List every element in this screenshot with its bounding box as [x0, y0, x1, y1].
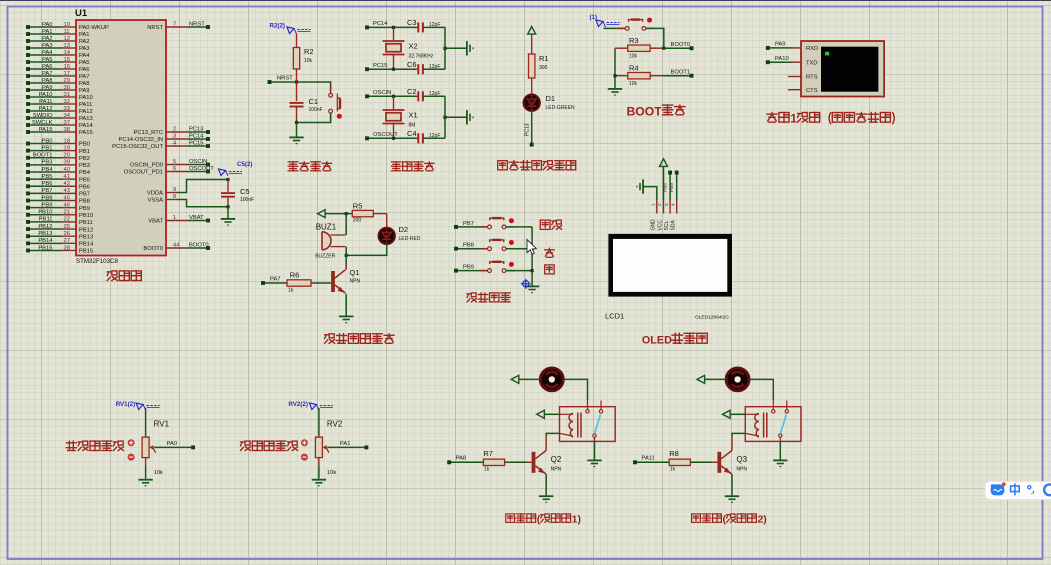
svg-text:VBAT: VBAT [148, 219, 163, 225]
svg-text:12pF: 12pF [429, 64, 440, 70]
svg-text:PB9: PB9 [463, 265, 474, 271]
collector wire of Q2 [545, 436, 547, 451]
svg-text:PA7: PA7 [79, 74, 90, 80]
svg-text:PB2: PB2 [79, 156, 90, 162]
svg-text:PB3: PB3 [79, 163, 90, 169]
svg-text:PB15: PB15 [79, 249, 93, 255]
terminal C5(2) [219, 169, 226, 176]
label 减 [545, 265, 555, 274]
svg-text:11: 11 [64, 29, 70, 35]
svg-text:3: 3 [664, 203, 670, 206]
svg-text:R3: R3 [629, 36, 639, 45]
svg-text:PC15: PC15 [373, 63, 388, 69]
pin 6 OSCOUT_PD1 / net OSCOUT [166, 171, 188, 173]
svg-text:PA10: PA10 [39, 92, 53, 98]
capacitor C4 12pF [417, 133, 419, 143]
svg-text:PA0: PA0 [167, 441, 178, 447]
svg-text:BOOT: BOOT [627, 104, 663, 118]
net PA10 wire [768, 61, 792, 63]
svg-text:17: 17 [64, 71, 70, 77]
svg-text:PA12: PA12 [79, 109, 93, 115]
svg-text:40: 40 [64, 167, 70, 173]
node C5 top junction [226, 178, 229, 181]
svg-text:PA7: PA7 [270, 277, 281, 283]
net PA9 wire [768, 47, 792, 49]
pin 11 wire/net PA1 [28, 33, 62, 35]
pin 28 wire/net PB15 [28, 249, 62, 251]
reset push button [330, 86, 332, 93]
pin 20 wire/net BOOT1 [28, 157, 62, 159]
svg-text:PA0-WKUP: PA0-WKUP [79, 25, 109, 31]
node collector junction [345, 254, 348, 257]
svg-text:PB8: PB8 [79, 199, 90, 205]
svg-text:300: 300 [353, 218, 362, 224]
transistor Q3 NPN [717, 452, 721, 473]
resistor R4 10k [615, 75, 628, 77]
svg-text:32.768KHz: 32.768KHz [409, 54, 434, 60]
relay NC pin of 继电器(雾化器2) [785, 410, 788, 413]
wire NRST to button [297, 82, 331, 91]
wire terminal to BOOT button [604, 27, 626, 29]
svg-text:10k: 10k [629, 54, 638, 60]
node C1 bottom junction [295, 121, 298, 124]
svg-text:PB6: PB6 [79, 184, 90, 190]
svg-text:PB14: PB14 [79, 242, 94, 248]
svg-text:R2(2): R2(2) [270, 23, 285, 30]
svg-text:PB12: PB12 [79, 227, 93, 233]
net PC13 wire below D1 [531, 110, 533, 144]
svg-text:OSCIN_PD0: OSCIN_PD0 [130, 163, 163, 169]
svg-text:44: 44 [173, 242, 180, 248]
IME punctuation icon [1028, 486, 1031, 489]
svg-text:33: 33 [64, 106, 70, 112]
svg-text:C6: C6 [407, 60, 417, 69]
wire buzzer to R5 node [345, 214, 347, 235]
power terminal at relay coil of 继电器(雾化器2) [723, 410, 731, 418]
svg-text:PB1: PB1 [42, 145, 53, 151]
relay coil of 继电器(雾化器1) [569, 414, 573, 438]
push button PB8 [480, 248, 487, 250]
svg-text:C4: C4 [407, 129, 417, 138]
svg-text:OLED12864I2C: OLED12864I2C [695, 315, 729, 321]
svg-text:VDDA: VDDA [147, 191, 163, 197]
wire terminal to RV2 [318, 408, 320, 436]
svg-text:PB11: PB11 [79, 220, 93, 226]
svg-text:9: 9 [173, 187, 176, 193]
label 加 [545, 249, 555, 251]
svg-text:PA13: PA13 [79, 116, 93, 122]
svg-text:14: 14 [64, 50, 71, 56]
svg-text:C5: C5 [240, 187, 250, 196]
pin 29 wire/net PA8 [28, 82, 62, 84]
terminal (1) [596, 20, 603, 27]
wire motor to relay of 继电器(雾化器2) [749, 379, 773, 400]
relay coil bottom pin of 继电器(雾化器2) [745, 433, 759, 436]
svg-text:C2: C2 [407, 87, 417, 96]
net PA7 wire [263, 282, 287, 284]
red actuation dot of reset button [337, 114, 342, 119]
svg-text:STM32F103C8: STM32F103C8 [76, 258, 119, 265]
relay coil of 继电器(雾化器2) [755, 414, 759, 438]
RV1 adjust buttons [128, 439, 135, 446]
svg-text:PA8: PA8 [456, 456, 467, 462]
net PB6 wire at SCL [669, 173, 671, 201]
svg-text:18: 18 [64, 138, 70, 144]
label （模拟手机端） [829, 112, 831, 124]
svg-text:30: 30 [64, 85, 70, 91]
LED D1 LED-GREEN [524, 95, 540, 111]
net PB9 wire at SDA [676, 173, 678, 201]
resistor R2 10k [296, 34, 298, 48]
svg-text:VBAT: VBAT [189, 215, 204, 221]
pin 1 VBAT [166, 220, 188, 222]
wire motor to relay of 继电器(雾化器1) [563, 379, 587, 400]
ground of X2 section [445, 47, 466, 49]
wire R8 to Q3 base [690, 461, 712, 463]
svg-text:(: ( [723, 514, 727, 526]
svg-text:PC15-OSC32_OUT: PC15-OSC32_OUT [112, 144, 163, 150]
svg-text:BOOT0: BOOT0 [189, 242, 209, 248]
terminal R2(2) [287, 27, 294, 34]
svg-text:TXD: TXD [806, 60, 818, 66]
power terminal at relay coil of 继电器(雾化器1) [537, 410, 545, 418]
svg-text:PC14: PC14 [373, 21, 388, 27]
svg-text:U1: U1 [75, 8, 88, 19]
pin 46 wire/net PB9 [28, 207, 62, 209]
OLED module LCD1 body [608, 234, 732, 297]
svg-text:PA6: PA6 [79, 67, 90, 73]
svg-text:RTS: RTS [806, 75, 818, 81]
svg-text:2): 2) [757, 514, 766, 526]
ground under Q3 [731, 474, 733, 495]
ground below C5 [227, 207, 229, 218]
power terminal above R1 [528, 27, 536, 35]
relay coil bottom pin of 继电器(雾化器1) [560, 433, 574, 436]
svg-text:10k: 10k [154, 470, 163, 476]
svg-text:(: ( [537, 514, 541, 526]
svg-text:39: 39 [64, 160, 70, 166]
svg-text:PB15: PB15 [38, 245, 52, 251]
svg-text:C3: C3 [407, 18, 417, 27]
IME partial icon at edge [1044, 484, 1051, 495]
buzzer BUZ1 [322, 232, 331, 250]
LED D2 LED-RED [386, 214, 388, 228]
svg-text:PA1: PA1 [340, 441, 351, 447]
svg-text:PA11: PA11 [79, 102, 92, 108]
U1 chip body STM32F103C8 [76, 20, 166, 256]
wire R6 to Q1 base [311, 282, 331, 284]
node key bus PB8 junction [531, 247, 534, 250]
transistor Q2 NPN [532, 452, 536, 473]
net PB8 wire [456, 248, 488, 250]
node key bus PB9 junction [531, 269, 534, 272]
svg-text:41: 41 [64, 174, 70, 180]
svg-text:NPN: NPN [350, 279, 361, 285]
svg-text:15: 15 [64, 57, 70, 63]
svg-text:PC15: PC15 [189, 140, 204, 146]
svg-text:BUZ1: BUZ1 [316, 223, 337, 232]
push button PB7 [480, 226, 487, 228]
ground of keys [525, 286, 539, 293]
ground under Q1 [345, 294, 347, 316]
pin 16 wire/net PA6 [28, 68, 62, 70]
svg-text:1: 1 [651, 203, 657, 206]
svg-text:LED-GREEN: LED-GREEN [546, 105, 576, 111]
svg-text:PB11: PB11 [39, 217, 53, 223]
svg-text:6: 6 [173, 166, 176, 172]
pin 7 NRST [166, 26, 188, 28]
svg-text:1: 1 [790, 112, 797, 126]
svg-text:NRST: NRST [277, 76, 293, 82]
svg-text:PB13: PB13 [38, 231, 52, 237]
svg-text:PA14: PA14 [79, 123, 94, 129]
svg-text:OSCOUT_PD1: OSCOUT_PD1 [124, 170, 163, 176]
net PB9 wire [456, 270, 488, 272]
svg-text:RXD: RXD [806, 46, 818, 52]
wire terminal to RV1 [145, 408, 147, 436]
wire right bus X2 [444, 27, 446, 69]
svg-text:BOOT1: BOOT1 [33, 153, 53, 159]
svg-text:PA1: PA1 [79, 32, 90, 38]
IME red dot [1002, 482, 1006, 486]
svg-text:(1): (1) [590, 14, 598, 21]
svg-text:PA9: PA9 [775, 42, 786, 48]
svg-text:PB1: PB1 [79, 149, 90, 155]
svg-text:38: 38 [64, 127, 70, 133]
svg-text:300: 300 [539, 65, 548, 71]
pin 8 VSSA wire [166, 199, 177, 201]
label 复位电路 [288, 161, 298, 163]
svg-text:PA3: PA3 [42, 43, 53, 49]
svg-text:PB13: PB13 [79, 234, 93, 240]
wire D2 to collector node [346, 244, 387, 255]
svg-text:100nF: 100nF [309, 107, 323, 113]
svg-text:NRST: NRST [147, 25, 163, 31]
label 声音值调节 [241, 441, 244, 443]
ground under RV2 [318, 458, 320, 466]
ground at OLED GND [644, 187, 657, 200]
potentiometer RV2 10k body [315, 437, 322, 458]
svg-text:PA2: PA2 [79, 39, 90, 45]
svg-text:PA8: PA8 [79, 81, 90, 87]
pin TXD [792, 61, 801, 63]
svg-text:C1: C1 [309, 97, 319, 106]
resistor R6 1k [287, 280, 311, 286]
svg-text:VSSA: VSSA [148, 198, 164, 204]
svg-text:PB9: PB9 [79, 206, 90, 212]
svg-text:PA0: PA0 [42, 22, 53, 28]
pin 38 wire/net PA15 [28, 131, 62, 133]
svg-text:NPN: NPN [551, 466, 562, 472]
resistor R5 300 [352, 210, 373, 216]
resistor R1 300 [531, 34, 533, 54]
transistor Q1 NPN [345, 255, 347, 267]
net OSCOUT wire [367, 137, 416, 139]
node R4 left junction [613, 74, 616, 77]
svg-text:22: 22 [64, 217, 70, 223]
svg-text:GND: GND [651, 219, 657, 231]
pin 13 wire/net PA3 [28, 47, 62, 49]
label 显示屏 [672, 334, 683, 336]
svg-text:R8: R8 [669, 449, 679, 458]
node buzzer top junction [345, 212, 348, 215]
svg-text:PB14: PB14 [38, 238, 53, 244]
svg-text:PA10: PA10 [79, 95, 93, 101]
label 晶振电路 [392, 161, 401, 163]
svg-text:25: 25 [64, 224, 70, 230]
svg-text:PA5: PA5 [79, 60, 90, 66]
node X2 bus junction [443, 47, 446, 50]
svg-text:PB4: PB4 [79, 170, 91, 176]
svg-text:SDA: SDA [671, 220, 677, 231]
relay box of 继电器(雾化器1) [560, 407, 616, 442]
svg-text:12: 12 [64, 36, 70, 42]
svg-text:PB0: PB0 [42, 138, 53, 144]
svg-text:PC13: PC13 [189, 126, 204, 132]
resistor R3 10k [615, 47, 628, 49]
svg-text:31: 31 [64, 92, 70, 98]
svg-text:CTS: CTS [806, 88, 818, 94]
red actuation dot PB7 button [509, 218, 514, 223]
svg-text:PA11: PA11 [39, 99, 52, 105]
wire right bus X1 [444, 96, 446, 138]
label 主芯片 [107, 271, 110, 273]
input method toolbar [985, 482, 1051, 500]
svg-text:PB3: PB3 [42, 160, 53, 166]
relay common pin of 继电器(雾化器2) [772, 410, 775, 413]
svg-text:X1: X1 [409, 111, 418, 120]
svg-text:PB8: PB8 [42, 195, 53, 201]
relay NC pin of 继电器(雾化器1) [599, 410, 602, 413]
wire PB9 button to bus [506, 270, 532, 272]
IME 中 icon [1011, 486, 1020, 492]
svg-text:10k: 10k [327, 470, 336, 476]
svg-text:PC14: PC14 [189, 133, 204, 139]
net PA1 wire at RV2 wiper [327, 446, 366, 448]
power terminal at motor of 继电器(雾化器2) [697, 375, 705, 383]
pin 14 wire/net PA4 [28, 54, 62, 56]
svg-text:46: 46 [64, 202, 70, 208]
svg-text:NPN: NPN [736, 466, 747, 472]
pin 26 wire/net PB13 [28, 235, 62, 237]
label 串口1窗口（模拟手机端） [767, 113, 777, 115]
svg-text:BOOT0: BOOT0 [671, 42, 691, 48]
svg-text:PB4: PB4 [42, 167, 54, 173]
svg-text:43: 43 [64, 188, 70, 194]
svg-text:R4: R4 [629, 64, 639, 73]
svg-text:OSCIN: OSCIN [189, 159, 207, 165]
resistor R8 1k [669, 459, 690, 465]
svg-text:PB7: PB7 [463, 221, 474, 227]
svg-text:R7: R7 [483, 449, 493, 458]
virtual terminal screen [821, 47, 878, 92]
svg-text:BOOT0: BOOT0 [143, 246, 163, 252]
svg-text:45: 45 [64, 195, 70, 201]
svg-text:12pF: 12pF [429, 22, 440, 28]
svg-text:R6: R6 [290, 271, 300, 280]
svg-text:BUZZER: BUZZER [315, 254, 335, 260]
svg-text:20: 20 [64, 153, 70, 159]
svg-text:SWDIO: SWDIO [33, 113, 53, 119]
net PA0 wire at RV1 wiper [154, 446, 193, 448]
node X2 bottom junction [392, 68, 395, 71]
svg-text:PB9: PB9 [42, 202, 53, 208]
node X2 top junction [392, 26, 395, 29]
capacitor C2 12pF [417, 91, 419, 101]
svg-text:Q1: Q1 [350, 268, 360, 277]
svg-text:D1: D1 [546, 94, 556, 103]
svg-text:8M: 8M [409, 123, 416, 129]
svg-text:RV1(2): RV1(2) [116, 401, 136, 408]
virtual terminal body [801, 41, 884, 97]
svg-text:PA15: PA15 [79, 130, 93, 136]
svg-text:OLED: OLED [642, 335, 672, 347]
svg-text:100nF: 100nF [240, 197, 254, 203]
svg-text:PC13: PC13 [525, 123, 531, 136]
RV2 adjust buttons [301, 439, 308, 446]
svg-text:34: 34 [64, 113, 71, 119]
label 独立按键 [467, 293, 470, 295]
svg-text:26: 26 [64, 231, 70, 237]
power terminal of buzzer circuit [318, 210, 326, 218]
svg-text:LED-RED: LED-RED [399, 236, 421, 242]
net PC15 wire [367, 68, 416, 70]
pin 40 wire/net PB4 [28, 171, 62, 173]
svg-text:1k: 1k [288, 288, 294, 294]
net BOOT0 wire [664, 47, 692, 49]
svg-text:PA2: PA2 [42, 36, 53, 42]
net PB7 wire [456, 226, 488, 228]
pin 39 wire/net PB3 [28, 164, 62, 166]
svg-text:PB0: PB0 [79, 142, 90, 148]
svg-text:PB10: PB10 [38, 210, 52, 216]
svg-text:SCL: SCL [664, 221, 670, 231]
relay box of 继电器(雾化器2) [745, 407, 801, 442]
pin 34 wire/net SWDIO [28, 117, 62, 119]
potentiometer RV1 10k body [142, 437, 149, 458]
pin 5 OSCIN_PD0 / net OSCIN [166, 164, 188, 166]
terminal cursor block [825, 52, 829, 56]
svg-text:PB6: PB6 [42, 181, 53, 187]
pin 19 wire/net PB1 [28, 150, 62, 152]
svg-text:37: 37 [64, 120, 70, 126]
svg-text:PA9: PA9 [79, 88, 90, 94]
pin 1 GND of OLED [656, 200, 658, 214]
svg-text:7: 7 [173, 21, 176, 27]
pin 31 wire/net PA10 [28, 96, 62, 98]
svg-text:1k: 1k [484, 467, 490, 473]
red actuation dot PB8 button [509, 240, 514, 245]
svg-text:RV2(2): RV2(2) [288, 401, 308, 408]
node X1 bus junction [443, 116, 446, 119]
atomizer motor of 继电器(雾化器2) [726, 368, 749, 391]
svg-text:4: 4 [670, 203, 676, 206]
svg-text:PA10: PA10 [775, 56, 789, 62]
pin 44 BOOT0 [166, 247, 188, 249]
pin 2 PC13_RTC / net PC13 [166, 131, 188, 133]
svg-text:PA6: PA6 [42, 64, 53, 70]
pin 4 SDA of OLED [676, 200, 678, 214]
wire PB7 button to bus [506, 226, 532, 228]
pin 15 wire/net PA5 [28, 61, 62, 63]
relay common pin of 继电器(雾化器1) [586, 410, 589, 413]
svg-text:32: 32 [64, 99, 70, 105]
atomizer motor of 继电器(雾化器1) [540, 368, 563, 391]
relay lower contact of 继电器(雾化器2) [779, 434, 782, 437]
wire PB8 button to bus [506, 248, 532, 250]
svg-text:10k: 10k [629, 81, 638, 87]
wire power to R5 row [325, 213, 352, 215]
